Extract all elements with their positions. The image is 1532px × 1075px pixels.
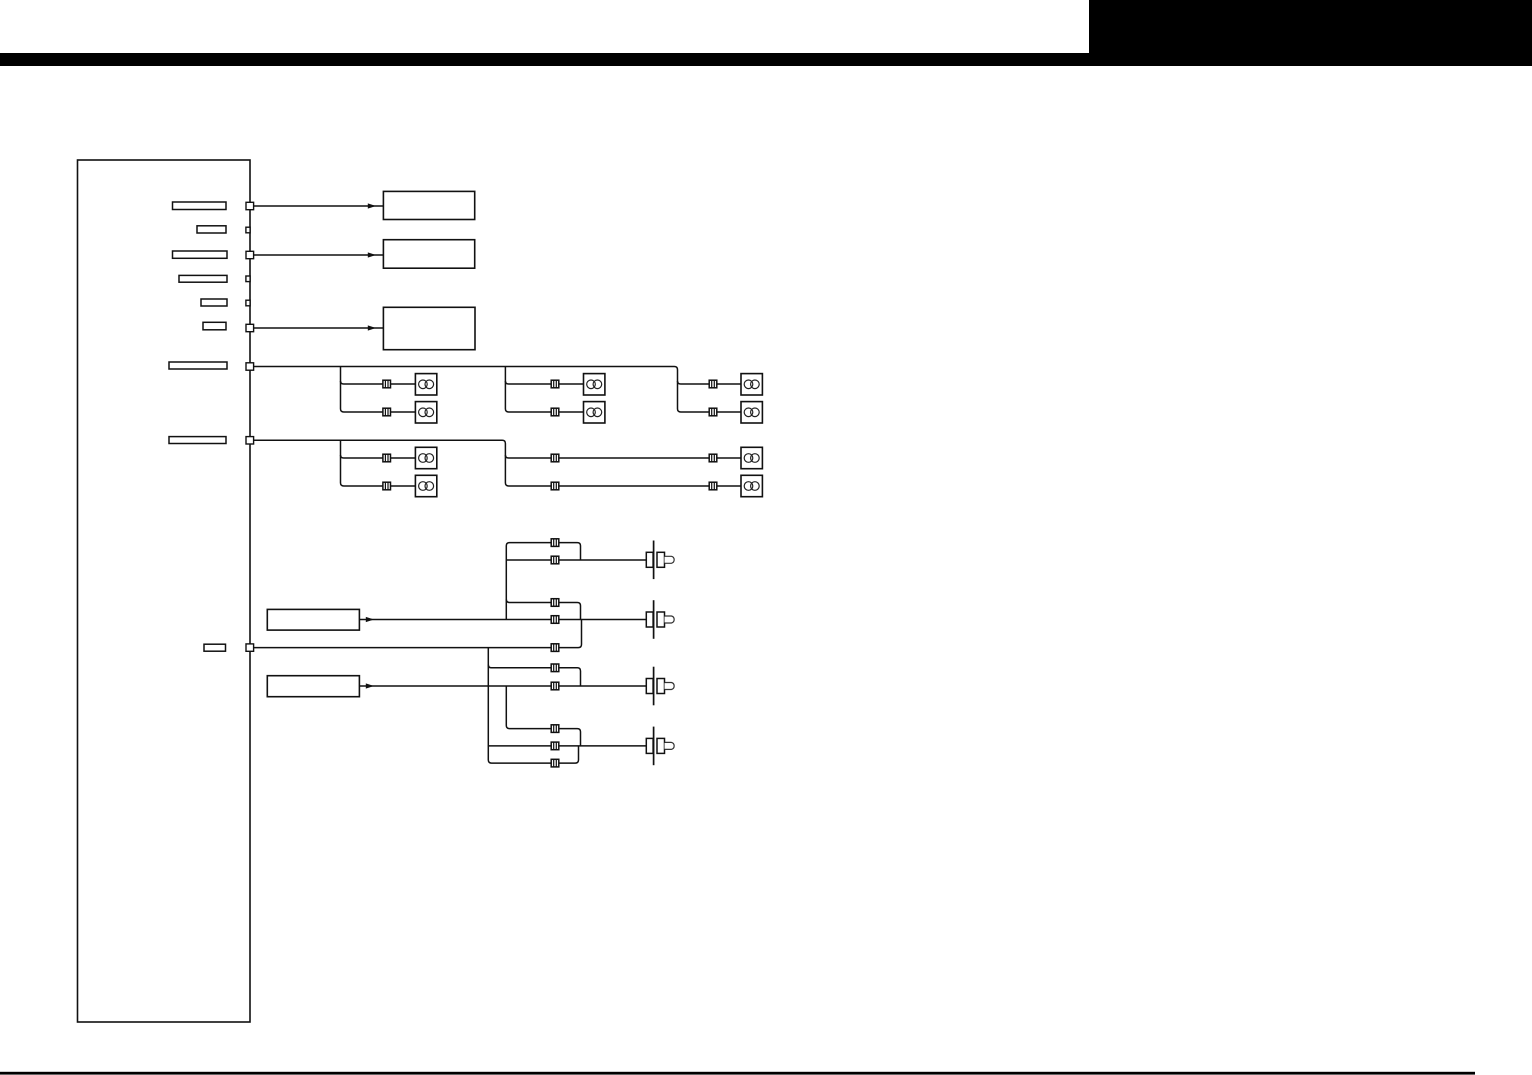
speaker SP2 [415,402,436,423]
speaker SP8 [415,475,436,496]
wire vertical V1 [506,543,580,620]
wire vertical V2 with bottom loop [488,648,578,764]
wire B branch 1 upper tap [341,455,416,458]
connector CN7 [246,363,254,370]
cable connector A1 [383,380,391,388]
speaker SP1 [415,374,436,395]
connector CN5 [246,300,250,306]
wire pair2 upper loop [506,599,580,619]
arrowhead box 4 wire [366,617,374,622]
cable connector C10 [551,759,559,767]
cable connector C5 [551,644,559,652]
RCA jack J3 [646,667,674,706]
RCA jack J2 [646,600,674,639]
RCA jack J1 [646,541,674,580]
cable connector C9 [551,742,559,750]
wire speaker bus B [254,440,741,486]
connector label bar 4 [179,275,227,282]
arrowhead wire 2 [368,252,376,257]
arrowhead wire 3 [368,325,376,330]
cable connector B2 [383,482,391,490]
speaker SP3 [584,374,605,395]
cable connector A6 [709,408,717,416]
wire box 5 to jack J3 [359,685,646,687]
cable connector B4 [551,482,559,490]
footer rule [0,1072,1475,1075]
speaker SP4 [584,402,605,423]
wire pair3 upper loop [488,665,580,686]
connector label bar 9 [204,644,226,651]
connector label bar 6 [203,322,226,330]
wire B long upper row [505,455,741,458]
wire main CN9 bus [254,620,582,648]
wire jack J1 line [506,559,646,561]
wire A branch 2 upper tap [505,381,583,384]
cable connector A5 [709,380,717,388]
box 3 [383,307,475,349]
wire B branch 1 drop [341,440,416,486]
connector CN2 [246,227,250,233]
wire A branch 2 drop [505,367,583,413]
wire CN3 to box 2 [254,254,384,256]
speaker SP6 [741,402,762,423]
wire A branch 3 upper tap [678,381,742,384]
cable connector A2 [383,408,391,416]
wire jack J4 line [488,745,646,747]
speaker SP9 [741,447,762,468]
wire A branch 1 drop [341,367,416,413]
connector label bar 8 [169,437,226,444]
connector label bar 1 [173,202,227,210]
wire CN6 to box 3 [254,327,384,329]
cable connector C7 [551,682,559,690]
cable connector B3 [551,454,559,462]
cable connector A4 [551,408,559,416]
speaker SP7 [415,447,436,468]
speaker SP10 [741,475,762,496]
connector CN4 [246,276,250,282]
cable connector C1 [551,539,559,547]
arrowhead wire 1 [368,203,376,208]
header rule bar [0,53,1532,66]
wire box 4 to jack J2 [359,619,646,621]
cable connector A3 [551,380,559,388]
connector label bar 5 [201,299,227,306]
wire vertical V3 pair4 loop [506,686,580,746]
box 2 [383,240,474,269]
connector CN1 [246,202,254,209]
wire CN1 to box 1 [254,205,384,207]
cable connector C6 [551,664,559,672]
box 4 [267,609,359,630]
cable connector C8 [551,725,559,733]
connector CN9 [246,644,254,651]
speaker SP5 [741,374,762,395]
RCA jack J4 [646,727,674,766]
header title block (solid) [1089,0,1532,66]
connector CN3 [246,251,254,258]
connector label bar 2 [197,226,226,233]
connector label bar 7 [169,362,227,369]
cable connector B5 [709,454,717,462]
arrowhead box 5 wire [366,683,374,688]
cable connector B1 [383,454,391,462]
connector CN6 [246,324,254,331]
connector CN8 [246,437,254,444]
box 1 [383,191,474,219]
cable connector C2 [551,556,559,564]
connector label bar 3 [173,251,228,258]
cable connector B6 [709,482,717,490]
cable connector C4 [551,616,559,624]
box 5 [267,676,359,697]
cable connector C3 [551,599,559,607]
main unit outline [78,160,251,1022]
wire A branch 1 upper tap [341,381,416,384]
wire speaker bus A [254,367,741,413]
